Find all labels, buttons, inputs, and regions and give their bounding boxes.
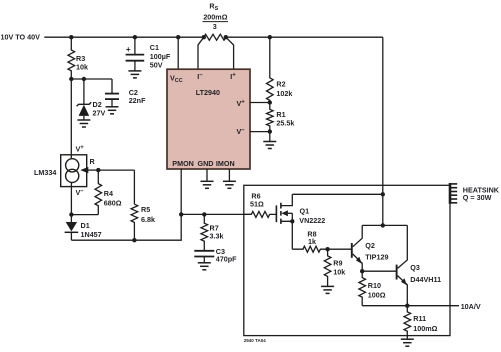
wire R pin with arrow into LM334 (98, 169, 134, 171)
svg-text:TIP129: TIP129 (365, 253, 388, 262)
svg-text:51Ω: 51Ω (250, 199, 264, 208)
Q1 body arrow (285, 212, 292, 214)
wire collector bus (362, 224, 407, 226)
svg-text:R2: R2 (276, 79, 285, 88)
wire node to C2 (111, 79, 113, 94)
node R3/LM334 (69, 77, 73, 81)
transistor Q3 D44VH11 bar (396, 265, 398, 280)
node rail/R3 (69, 35, 73, 39)
capacitor C3 470pF (194, 250, 214, 252)
svg-text:102k: 102k (276, 89, 292, 98)
wire rail to C1 (134, 37, 136, 54)
node LM334/R4/D1 (69, 212, 73, 216)
resistor R6 51 (245, 211, 277, 217)
wire V+ pin to node (250, 102, 270, 104)
resistor R7 3.3k (201, 214, 208, 250)
svg-text:1N457: 1N457 (81, 230, 102, 239)
ground at GND pin (201, 180, 214, 182)
svg-text:100Ω: 100Ω (368, 290, 386, 299)
svg-text:10A/V: 10A/V (461, 302, 481, 311)
svg-text:IMON: IMON (216, 159, 235, 168)
svg-text:22nF: 22nF (129, 96, 146, 105)
node D2 tap (82, 77, 86, 81)
node R4 top (96, 168, 100, 172)
svg-text:R5: R5 (141, 205, 150, 214)
svg-text:680Ω: 680Ω (104, 199, 122, 208)
resistor R8 1k (292, 246, 327, 252)
svg-text:+: + (126, 45, 131, 54)
node RS left (202, 35, 206, 39)
node V+ divider (268, 100, 272, 104)
wire node to D2 (83, 79, 85, 104)
ground below C2 (106, 106, 119, 108)
svg-text:100mΩ: 100mΩ (413, 324, 437, 333)
svg-text:Q3: Q3 (410, 263, 420, 272)
Q1 source (281, 221, 292, 249)
svg-text:R11: R11 (413, 314, 426, 323)
wire RS left to I- pin (198, 37, 204, 69)
heatsink symbol (449, 183, 452, 204)
svg-text:R: R (90, 157, 96, 166)
wire PMON to bottom rail (71, 214, 181, 240)
wire R8 node to Q2 base (328, 248, 352, 250)
node RS right (224, 35, 228, 39)
svg-text:R10: R10 (368, 281, 381, 290)
wire PMON pin down (180, 169, 182, 214)
svg-text:Q = 30W: Q = 30W (463, 193, 492, 202)
op-amp U1 LT2940 body (167, 69, 250, 169)
node output 10A/V (405, 304, 409, 308)
fraction bar RS (203, 21, 229, 23)
wire PMON node to R6 (181, 213, 251, 215)
svg-text:50V: 50V (150, 61, 163, 70)
svg-text:R9: R9 (333, 258, 342, 267)
svg-text:1k: 1k (308, 237, 316, 246)
ground below R9 (321, 285, 334, 287)
wire Q2 emitter to Q3 base (362, 270, 396, 272)
svg-text:R4: R4 (104, 189, 113, 198)
wire IMON pin down (228, 169, 230, 181)
node R7 top (202, 212, 206, 216)
resistor R10 100 (359, 271, 366, 306)
svg-text:PMON: PMON (172, 159, 194, 168)
resistor R2 102k (267, 37, 274, 102)
wire R4 bottom to node (71, 214, 98, 216)
diode D1 1N457 (70, 214, 72, 222)
wire R10 bottom to output node (362, 305, 407, 307)
node bus/supply vertical (381, 223, 385, 227)
resistor R5 6.8k (131, 204, 138, 240)
ground below divider (263, 141, 276, 143)
wire input rail right of RS (226, 36, 383, 38)
ground below D2 (77, 119, 90, 121)
wire Q1 drain to supply vertical (292, 193, 383, 195)
node V- divider (268, 129, 272, 133)
svg-text:470pF: 470pF (216, 255, 237, 264)
node R5 bottom (132, 238, 136, 242)
wire V- pin to node (250, 131, 270, 133)
svg-text:GND: GND (198, 159, 214, 168)
diode D2 zener 27V (79, 105, 90, 116)
node R8/R9 (325, 247, 329, 251)
resistor R4 680 (95, 170, 102, 215)
svg-text:3: 3 (213, 22, 217, 31)
svg-text:LM334: LM334 (34, 168, 56, 177)
svg-text:Q2: Q2 (365, 241, 375, 250)
svg-text:10k: 10k (76, 63, 88, 72)
wire RS right to I+ pin (226, 37, 234, 69)
svg-text:27V: 27V (93, 108, 106, 117)
ground at IMON pin (223, 180, 236, 182)
wire right vertical drop (382, 37, 384, 225)
wire V- node to ground (269, 132, 271, 142)
transistor Q2 TIP129 bar (351, 243, 353, 258)
svg-text:D1: D1 (81, 221, 90, 230)
Q2 emitter (353, 254, 363, 271)
power stage boundary box (244, 185, 450, 335)
resistor R9 10k (324, 249, 331, 286)
svg-text:LT2940: LT2940 (196, 88, 220, 97)
node supply vertical/drain (381, 192, 385, 196)
Q2 collector (353, 225, 363, 246)
svg-text:D44VH11: D44VH11 (410, 275, 441, 284)
capacitor C2 22nF (105, 93, 119, 95)
resistor R1 25.5k (267, 103, 274, 132)
wire node to LM334 V+ (70, 79, 72, 159)
svg-text:10V TO 40V: 10V TO 40V (1, 33, 41, 42)
svg-text:3.3k: 3.3k (210, 232, 224, 241)
svg-text:6.8k: 6.8k (141, 215, 155, 224)
transistor Q1 VN2222 gate (275, 205, 277, 222)
resistor R11 100m (404, 306, 411, 336)
resistor RS 200mOhm/3 (204, 34, 226, 40)
node rail/VCC (176, 35, 180, 39)
node Q2 emitter junction (360, 269, 364, 273)
wire GND pin down (206, 169, 208, 181)
wire rail to VCC pin (177, 37, 179, 69)
capacitor C1 100uF 50V (126, 54, 145, 56)
node Q1 source/body (290, 219, 294, 223)
wire LM334 V- down (70, 182, 72, 214)
Q3 collector (398, 225, 408, 268)
svg-text:2940 TA04: 2940 TA04 (244, 338, 266, 343)
Q3 emitter (398, 276, 408, 306)
ground below C3 (198, 262, 211, 264)
wire R node to R5 (133, 170, 135, 204)
resistor R3 10k (68, 37, 75, 79)
svg-text:C1: C1 (150, 43, 159, 52)
ground below R11 (401, 338, 414, 340)
node rail/R2 (268, 35, 272, 39)
wire input rail left (44, 36, 204, 38)
svg-text:Q1: Q1 (300, 206, 310, 215)
current source circles (66, 159, 79, 172)
node rail/C1 (133, 35, 137, 39)
svg-text:200mΩ: 200mΩ (203, 13, 227, 22)
node PMON (179, 212, 183, 216)
svg-text:VN2222: VN2222 (299, 216, 325, 225)
wire R3 bottom node (71, 78, 112, 80)
svg-text:100µF: 100µF (150, 52, 171, 61)
svg-text:10k: 10k (333, 268, 345, 277)
current source U2 LM334 box (61, 155, 87, 187)
svg-text:25.5k: 25.5k (276, 119, 294, 128)
Q1 drain (281, 194, 292, 205)
Q1 channel segments (280, 203, 282, 209)
ground below C1 (128, 70, 141, 72)
wire output to label (407, 305, 459, 307)
